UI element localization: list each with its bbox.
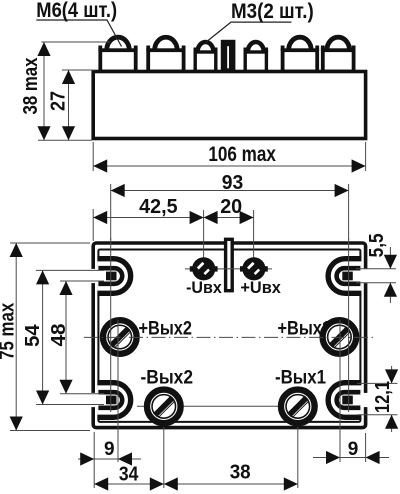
dimension 12,1 [357, 366, 398, 432]
input terminal -Uvx [190, 257, 218, 280]
svg-text:5,5: 5,5 [366, 233, 388, 257]
svg-text:27: 27 [48, 91, 70, 111]
dimension 5,5 [356, 233, 397, 303]
svg-text:М3(2 шт.): М3(2 шт.) [231, 0, 314, 23]
dimension 27 [48, 70, 95, 140]
mounting ear bottom-right [328, 383, 369, 418]
svg-text:9: 9 [104, 439, 115, 460]
svg-text:38: 38 [230, 462, 251, 484]
body outer outline [93, 243, 365, 428]
svg-text:34: 34 [119, 463, 139, 485]
divider tab side view [224, 43, 232, 72]
output terminal +Vyh2 [100, 317, 139, 356]
dimension 9 left [78, 320, 141, 488]
screw M6 #3 [289, 37, 312, 50]
dimension 106 max [93, 142, 365, 173]
screw M6 #1 [107, 37, 130, 50]
mounting hole center line left [110, 238, 112, 412]
dimension 42,5 [93, 195, 203, 241]
horizontal axis centerline [84, 336, 374, 338]
svg-text:93: 93 [222, 171, 244, 194]
svg-text:-Вых1: -Вых1 [275, 367, 326, 388]
crosshair through bottom terminals [137, 405, 318, 407]
output terminal -Vyh1 [278, 387, 317, 426]
screw M3 #2 [248, 42, 264, 52]
output terminal -Vyh2 [144, 387, 183, 426]
svg-text:+Uвх: +Uвх [240, 278, 281, 297]
mounting ear bottom-left [90, 383, 131, 418]
divider tab plan view [226, 239, 233, 290]
svg-text:20: 20 [220, 195, 242, 218]
mounting ear top-left [90, 259, 131, 294]
svg-text:38 max: 38 max [20, 58, 42, 115]
screw M6 #2 [155, 37, 178, 50]
svg-text:9: 9 [348, 439, 359, 460]
mounting ear top-right [328, 259, 369, 294]
svg-text:М6(4 шт.): М6(4 шт.) [36, 0, 117, 22]
dimension 34 [94, 427, 164, 491]
svg-text:12,1: 12,1 [372, 381, 394, 413]
dimension 9 right [313, 320, 389, 464]
mounting hole center line right [348, 238, 350, 412]
svg-text:-Вых2: -Вых2 [141, 367, 194, 388]
dimension 75 max [0, 243, 90, 431]
svg-text:+Вых2: +Вых2 [139, 318, 193, 339]
extension line right input terminal [253, 210, 255, 280]
output terminal +Vyh1 [320, 317, 359, 356]
svg-text:106 max: 106 max [208, 143, 276, 166]
label M6 with leader [36, 0, 121, 47]
relay body side view [93, 72, 365, 139]
input terminal +Uvx [240, 257, 268, 280]
dimension 93 [111, 171, 349, 240]
label M3 with leader [206, 0, 314, 42]
body inner outline [98, 250, 360, 422]
svg-text:42,5: 42,5 [139, 195, 178, 218]
dimension 48 [48, 281, 104, 394]
crosshair input terminals [185, 268, 272, 270]
extension line left input terminal [203, 210, 205, 280]
screw M6 #4 [327, 37, 350, 50]
dimension 38 max [20, 42, 110, 140]
dimension 20 [204, 195, 254, 224]
screw M3 #1 [198, 42, 214, 52]
dimension 38 [164, 427, 298, 491]
svg-text:48: 48 [48, 324, 70, 347]
svg-text:75 max: 75 max [0, 303, 19, 360]
dimension 54 [22, 270, 104, 404]
svg-text:-Uвх: -Uвх [186, 278, 222, 297]
svg-text:54: 54 [22, 323, 44, 346]
